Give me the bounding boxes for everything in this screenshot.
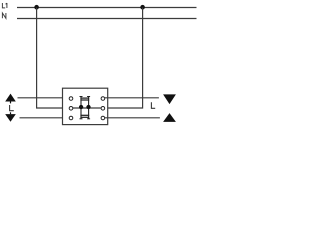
terminal bottom-right bbox=[101, 116, 105, 120]
wire row1 right bbox=[105, 97, 159, 99]
wire row2 inside box bbox=[73, 107, 101, 109]
wire L1 line bbox=[17, 7, 197, 9]
label N bbox=[2, 13, 6, 18]
wire vertical drop from L1 to middle-left terminal bbox=[37, 8, 69, 109]
label L right bbox=[151, 102, 155, 108]
contact dot right bbox=[86, 105, 90, 109]
right plunger top cap bbox=[87, 96, 90, 98]
left plunger top cap bbox=[80, 96, 83, 98]
terminal top-right bbox=[101, 97, 105, 101]
left plunger bottom cap bbox=[80, 118, 83, 120]
stem below up arrow bbox=[10, 101, 12, 103]
switch box outline bbox=[63, 88, 108, 124]
wire vertical drop from L1 to middle-right terminal bbox=[105, 8, 143, 109]
switch mechanism left plunger bbox=[80, 96, 82, 119]
top rung 1 bbox=[80, 97, 89, 99]
label L1 bbox=[2, 3, 7, 8]
label L left bbox=[10, 105, 14, 111]
stem above down arrow bbox=[10, 112, 12, 114]
terminal middle-right bbox=[101, 107, 105, 111]
junction dot on L1 (right drop) bbox=[140, 5, 145, 10]
wire row1 left bbox=[18, 97, 70, 99]
bottom rung 2 bbox=[80, 116, 89, 118]
terminal middle-left bbox=[69, 107, 73, 111]
arrow up left (blind up output) bbox=[5, 94, 16, 102]
terminal top-left bbox=[69, 97, 73, 101]
right plunger bottom cap bbox=[87, 118, 90, 120]
top rung 2 bbox=[80, 99, 89, 101]
junction dot on L1 (left drop) bbox=[34, 5, 39, 10]
switch mechanism right plunger bbox=[88, 96, 90, 119]
terminal bottom-left bbox=[69, 116, 73, 120]
wire row3 left bbox=[20, 117, 70, 119]
arrow up right (blind up output) bbox=[163, 113, 176, 122]
contact dot left bbox=[79, 105, 83, 109]
wire N line bbox=[17, 18, 197, 20]
arrow down right (blind down output) bbox=[163, 94, 176, 104]
arrow down left (blind down output) bbox=[5, 114, 16, 122]
bottom rung 1 bbox=[80, 114, 89, 116]
wire row3 right bbox=[105, 117, 160, 119]
